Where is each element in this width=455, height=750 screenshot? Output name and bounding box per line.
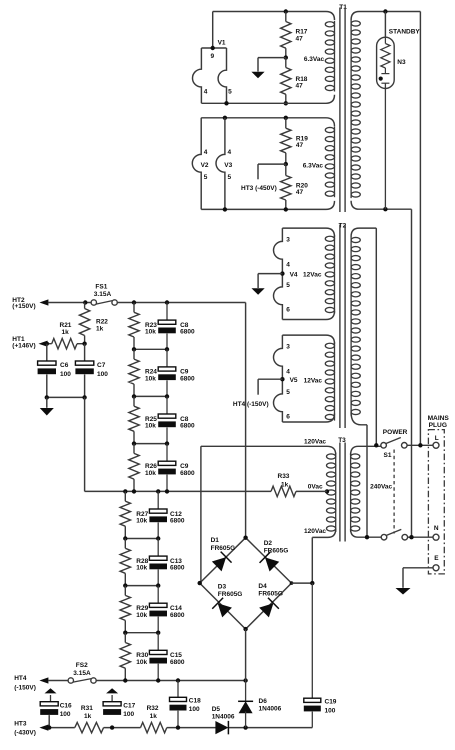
- ground: [396, 588, 411, 595]
- svg-text:4: 4: [286, 368, 290, 375]
- svg-text:100: 100: [123, 711, 134, 718]
- node: [284, 162, 288, 166]
- svg-text:120Vac: 120Vac: [304, 439, 326, 446]
- node: [165, 394, 169, 398]
- resistor R18: [281, 58, 308, 104]
- svg-text:1N4006: 1N4006: [212, 713, 235, 720]
- resistor R17: [281, 12, 308, 58]
- T2 primary winding: [351, 228, 376, 425]
- capacitor C17: [103, 702, 136, 719]
- svg-text:10k: 10k: [136, 565, 147, 572]
- svg-text:100: 100: [189, 706, 200, 713]
- node: [365, 535, 369, 539]
- svg-text:6800: 6800: [170, 612, 185, 619]
- svg-text:C17: C17: [123, 702, 135, 709]
- capacitor C18: [170, 681, 202, 728]
- svg-text:C16: C16: [60, 702, 72, 709]
- ground reference: [45, 688, 57, 702]
- wire: [201, 118, 334, 127]
- svg-text:C6: C6: [60, 362, 69, 369]
- svg-text:6800: 6800: [170, 518, 185, 525]
- wire: [134, 443, 167, 445]
- svg-text:4: 4: [204, 149, 208, 156]
- switch S1 pole A: [381, 438, 407, 449]
- svg-text:0Vac: 0Vac: [308, 484, 323, 491]
- svg-text:1k: 1k: [96, 326, 104, 333]
- fuse FS1: [91, 284, 117, 306]
- wire: [167, 727, 217, 729]
- node: [383, 9, 387, 13]
- svg-text:1k: 1k: [150, 713, 158, 720]
- svg-text:R31: R31: [81, 705, 93, 712]
- node: [132, 489, 136, 493]
- node: [156, 631, 160, 635]
- svg-text:100: 100: [60, 711, 71, 718]
- node: [123, 631, 127, 635]
- wire: [375, 228, 377, 445]
- terminal E: [433, 555, 439, 571]
- wire: [125, 538, 158, 540]
- wire: [229, 727, 312, 729]
- svg-text:47: 47: [296, 189, 304, 196]
- node: [156, 489, 160, 493]
- svg-text:6: 6: [286, 306, 290, 313]
- svg-text:6800: 6800: [170, 659, 185, 666]
- svg-text:4: 4: [204, 89, 208, 96]
- ground: [40, 408, 54, 416]
- svg-text:5: 5: [286, 282, 290, 289]
- resistor R33: [271, 473, 327, 497]
- diode D5: [212, 706, 235, 734]
- svg-text:D3: D3: [218, 584, 227, 591]
- wire: [200, 446, 202, 583]
- svg-text:(+150V): (+150V): [12, 303, 35, 310]
- T2 core: [340, 225, 345, 429]
- T1 winding 6.3V sec B: [325, 127, 334, 198]
- svg-text:R32: R32: [147, 705, 159, 712]
- svg-text:L: L: [435, 435, 439, 442]
- svg-text:HT4: HT4: [14, 675, 27, 682]
- svg-text:(-430V): (-430V): [14, 729, 36, 736]
- svg-text:4: 4: [228, 149, 232, 156]
- svg-text:100: 100: [97, 371, 108, 378]
- label 6.3Vac: [303, 163, 324, 170]
- svg-text:HT3: HT3: [14, 720, 27, 727]
- svg-text:D2: D2: [264, 540, 273, 547]
- switch link: [393, 450, 395, 534]
- svg-text:6800: 6800: [170, 565, 185, 572]
- node: [374, 443, 378, 447]
- capacitor C9: [158, 349, 195, 396]
- svg-text:6800: 6800: [180, 376, 195, 383]
- label 12Vac: [303, 272, 322, 279]
- svg-text:3.15A: 3.15A: [73, 670, 91, 677]
- label S1: [384, 452, 392, 459]
- label 240Vac: [370, 483, 392, 490]
- resistor R28: [120, 539, 149, 586]
- svg-text:(+146V): (+146V): [12, 342, 35, 349]
- diode D1: [211, 537, 236, 572]
- wire: [403, 568, 433, 588]
- wire: [411, 209, 413, 537]
- tube V4 heater: [273, 228, 334, 319]
- label 120Vac: [304, 528, 326, 535]
- wire: [311, 537, 313, 583]
- diode D4: [258, 583, 283, 618]
- svg-text:C7: C7: [97, 362, 106, 369]
- wire: [46, 374, 48, 397]
- terminal HT4 arrow: [39, 677, 48, 683]
- wire: [201, 201, 334, 210]
- T2 winding 12V sec A: [325, 235, 334, 313]
- svg-text:10k: 10k: [136, 612, 147, 619]
- node: [47, 725, 51, 729]
- resistor R24: [129, 349, 158, 396]
- wire: [312, 529, 335, 537]
- capacitor C6: [38, 361, 72, 378]
- terminal L: [433, 435, 439, 448]
- wire: [134, 395, 167, 397]
- wire: [48, 727, 75, 729]
- svg-text:C18: C18: [189, 697, 201, 704]
- wire: [48, 715, 50, 728]
- wire: [84, 344, 86, 361]
- node: [165, 347, 169, 351]
- wire: [407, 444, 433, 446]
- wire: [47, 396, 85, 398]
- svg-text:1k: 1k: [281, 482, 289, 489]
- diode D2: [260, 540, 289, 572]
- resistor R19: [281, 118, 309, 164]
- svg-text:47: 47: [296, 35, 304, 42]
- node: [132, 394, 136, 398]
- svg-text:5: 5: [286, 389, 290, 396]
- node: [284, 101, 288, 105]
- transformer T1 label: [339, 4, 347, 11]
- wire: [258, 58, 286, 72]
- wire: [200, 538, 292, 629]
- svg-text:S1: S1: [384, 452, 392, 459]
- svg-text:C19: C19: [325, 699, 337, 706]
- label 120Vac: [304, 439, 326, 446]
- wire: [258, 274, 282, 288]
- svg-text:5: 5: [204, 174, 208, 181]
- terminal HT3 arrow: [39, 725, 48, 731]
- T2 winding 12V sec B: [325, 342, 334, 420]
- node: [156, 536, 160, 540]
- mains plug outline: [428, 430, 444, 574]
- node: [198, 581, 202, 585]
- node: [123, 489, 127, 493]
- label HT3 (-450V): [241, 185, 277, 192]
- wire: [245, 629, 247, 680]
- resistor R27: [120, 491, 149, 538]
- label HT4 (-150V): [14, 675, 36, 691]
- wire: [213, 12, 335, 21]
- node: [45, 342, 49, 346]
- resistor R31: [75, 705, 104, 733]
- T3 primary winding: [351, 446, 382, 537]
- svg-text:10k: 10k: [136, 659, 147, 666]
- svg-text:6800: 6800: [180, 423, 195, 430]
- tube V1 heater: [193, 39, 233, 103]
- svg-text:12Vac: 12Vac: [304, 378, 323, 385]
- svg-text:FR605G: FR605G: [264, 547, 289, 554]
- lamp N3 standby: [377, 12, 421, 210]
- node: [223, 116, 227, 120]
- svg-text:STANDBY: STANDBY: [389, 28, 421, 35]
- node: [132, 300, 136, 304]
- T3 secondary winding: [327, 453, 336, 532]
- node: [243, 627, 247, 631]
- svg-text:4: 4: [286, 261, 290, 268]
- svg-text:FS1: FS1: [95, 284, 107, 291]
- capacitor C13: [149, 539, 184, 586]
- svg-text:N3: N3: [397, 59, 406, 66]
- capacitor C16: [40, 702, 72, 719]
- node: [243, 725, 247, 729]
- svg-text:R21: R21: [60, 322, 72, 329]
- label 0Vac: [308, 484, 323, 491]
- T1 primary winding: [351, 12, 420, 210]
- svg-text:240Vac: 240Vac: [370, 483, 392, 490]
- wire: [134, 348, 167, 350]
- capacitor C7: [75, 361, 108, 378]
- wire: [201, 95, 334, 104]
- wire: [46, 344, 48, 361]
- node: [165, 300, 169, 304]
- label 6.3Vac: [304, 56, 325, 63]
- svg-text:D4: D4: [258, 583, 267, 590]
- label HT4 (-150V): [233, 401, 269, 408]
- switch S1 pole B: [381, 529, 407, 540]
- capacitor C12: [149, 491, 184, 538]
- svg-text:PLUG: PLUG: [429, 422, 447, 429]
- node: [243, 678, 247, 682]
- svg-text:FS2: FS2: [76, 662, 88, 669]
- svg-text:V3: V3: [224, 162, 232, 169]
- resistor R26: [129, 444, 158, 492]
- svg-text:6: 6: [286, 413, 290, 420]
- node: [284, 207, 288, 211]
- node: [82, 342, 86, 346]
- node: [45, 395, 49, 399]
- node: [284, 9, 288, 13]
- node: [223, 207, 227, 211]
- svg-text:47: 47: [296, 83, 304, 90]
- node: [176, 725, 180, 729]
- T1 winding 6.3V sec A: [325, 21, 334, 92]
- node: [132, 347, 136, 351]
- T3 core: [340, 443, 345, 542]
- svg-text:10k: 10k: [145, 376, 156, 383]
- svg-text:HT4 (-150V): HT4 (-150V): [233, 401, 269, 408]
- svg-text:D5: D5: [212, 706, 221, 713]
- wire: [46, 397, 48, 407]
- node: [110, 725, 114, 729]
- label MAINS PLUG: [428, 415, 450, 429]
- wire: [84, 374, 86, 397]
- svg-text:V4: V4: [290, 272, 298, 279]
- svg-text:10k: 10k: [145, 470, 156, 477]
- wire: [96, 680, 245, 682]
- capacitor C8: [158, 396, 195, 443]
- wire: [201, 446, 336, 454]
- diode D3: [212, 584, 242, 619]
- svg-text:(-150V): (-150V): [14, 684, 36, 691]
- wire: [419, 12, 421, 446]
- resistor R30: [120, 633, 149, 681]
- svg-text:1N4006: 1N4006: [259, 705, 282, 712]
- tube V2 heater: [192, 118, 209, 210]
- diode D6: [238, 681, 282, 728]
- resistor R25: [129, 396, 158, 443]
- svg-text:E: E: [434, 555, 439, 562]
- node: [123, 678, 127, 682]
- resistor R29: [120, 586, 149, 633]
- svg-text:47: 47: [296, 142, 304, 149]
- resistor R22: [79, 303, 108, 344]
- node: [156, 678, 160, 682]
- svg-text:6.3Vac: 6.3Vac: [303, 163, 324, 170]
- svg-text:FR605G: FR605G: [211, 545, 236, 552]
- wire: [104, 727, 141, 729]
- svg-text:FR605G: FR605G: [218, 591, 243, 598]
- ground: [252, 288, 265, 294]
- node: [224, 101, 228, 105]
- svg-text:10k: 10k: [145, 329, 156, 336]
- svg-text:100: 100: [325, 707, 336, 714]
- label POWER: [383, 429, 408, 436]
- svg-text:6.3Vac: 6.3Vac: [304, 56, 325, 63]
- capacitor C9: [158, 444, 195, 492]
- wire: [48, 680, 68, 682]
- svg-text:5: 5: [228, 89, 232, 96]
- T1 core: [340, 8, 345, 213]
- tube V5 heater: [273, 335, 334, 422]
- fuse FS2: [68, 662, 96, 683]
- svg-text:FR605G: FR605G: [258, 590, 283, 597]
- svg-text:12Vac: 12Vac: [303, 272, 322, 279]
- transformer T2 label: [339, 222, 347, 229]
- node 0Vac tap: [325, 489, 329, 493]
- node: [243, 536, 247, 540]
- svg-text:6800: 6800: [180, 470, 195, 477]
- node: [82, 395, 86, 399]
- svg-text:10k: 10k: [145, 423, 156, 430]
- svg-text:3.15A: 3.15A: [94, 291, 112, 298]
- capacitor C15: [149, 633, 184, 681]
- wire: [245, 303, 247, 538]
- wire: [408, 536, 434, 538]
- terminal HT2 arrow: [39, 299, 48, 305]
- wire: [212, 12, 214, 49]
- node: [176, 678, 180, 682]
- svg-text:MAINS: MAINS: [428, 415, 450, 422]
- resistor R32: [141, 705, 167, 733]
- node: [132, 441, 136, 445]
- svg-text:1k: 1k: [62, 329, 70, 336]
- terminal HT1 arrow: [39, 341, 48, 347]
- svg-text:V2: V2: [201, 162, 209, 169]
- label HT1 (+146V): [12, 336, 35, 349]
- node: [156, 583, 160, 587]
- node: [165, 441, 169, 445]
- svg-text:D6: D6: [259, 698, 268, 705]
- capacitor C19: [304, 583, 337, 728]
- svg-text:5: 5: [228, 174, 232, 181]
- svg-text:V5: V5: [290, 377, 298, 384]
- svg-text:V1: V1: [218, 39, 226, 46]
- node: [383, 207, 387, 211]
- svg-text:10k: 10k: [136, 518, 147, 525]
- terminal N: [433, 525, 439, 540]
- svg-text:N: N: [434, 525, 439, 532]
- svg-text:HT3 (-450V): HT3 (-450V): [241, 185, 277, 192]
- tube V3 heater: [216, 118, 233, 210]
- resistor R23: [129, 303, 158, 350]
- node: [165, 489, 169, 493]
- svg-text:D1: D1: [211, 537, 220, 544]
- capacitor C14: [149, 586, 184, 633]
- svg-text:POWER: POWER: [383, 429, 408, 436]
- label 12Vac: [304, 378, 323, 385]
- wire: [258, 379, 282, 395]
- node: [290, 581, 294, 585]
- svg-text:R33: R33: [278, 473, 290, 480]
- node: [310, 581, 314, 585]
- wire: [48, 302, 91, 304]
- node: [418, 443, 422, 447]
- wire: [125, 632, 158, 634]
- svg-text:9: 9: [211, 53, 215, 60]
- wire: [258, 164, 286, 179]
- node: [284, 116, 288, 120]
- svg-text:100: 100: [60, 371, 71, 378]
- node: [83, 300, 87, 304]
- wire: [292, 582, 313, 584]
- label HT3 (-430V): [14, 720, 36, 736]
- ground: [251, 72, 264, 78]
- svg-text:120Vac: 120Vac: [304, 528, 326, 535]
- svg-text:6800: 6800: [180, 329, 195, 336]
- node: [123, 536, 127, 540]
- capacitor C8: [158, 303, 195, 350]
- svg-text:1k: 1k: [84, 713, 92, 720]
- wire: [85, 490, 271, 492]
- svg-text:R22: R22: [96, 319, 108, 326]
- wire: [125, 585, 158, 587]
- node: [284, 55, 288, 59]
- node: [123, 583, 127, 587]
- svg-text:3: 3: [286, 343, 290, 350]
- node: [409, 535, 413, 539]
- wire: [117, 302, 245, 304]
- resistor R20: [281, 164, 309, 209]
- wire: [84, 397, 86, 491]
- wire: [366, 425, 368, 537]
- label HT2 (+150V): [12, 297, 35, 310]
- ground reference: [106, 688, 118, 702]
- resistor R21: [47, 322, 85, 349]
- svg-text:3: 3: [286, 236, 290, 243]
- transformer T3 label: [338, 437, 346, 444]
